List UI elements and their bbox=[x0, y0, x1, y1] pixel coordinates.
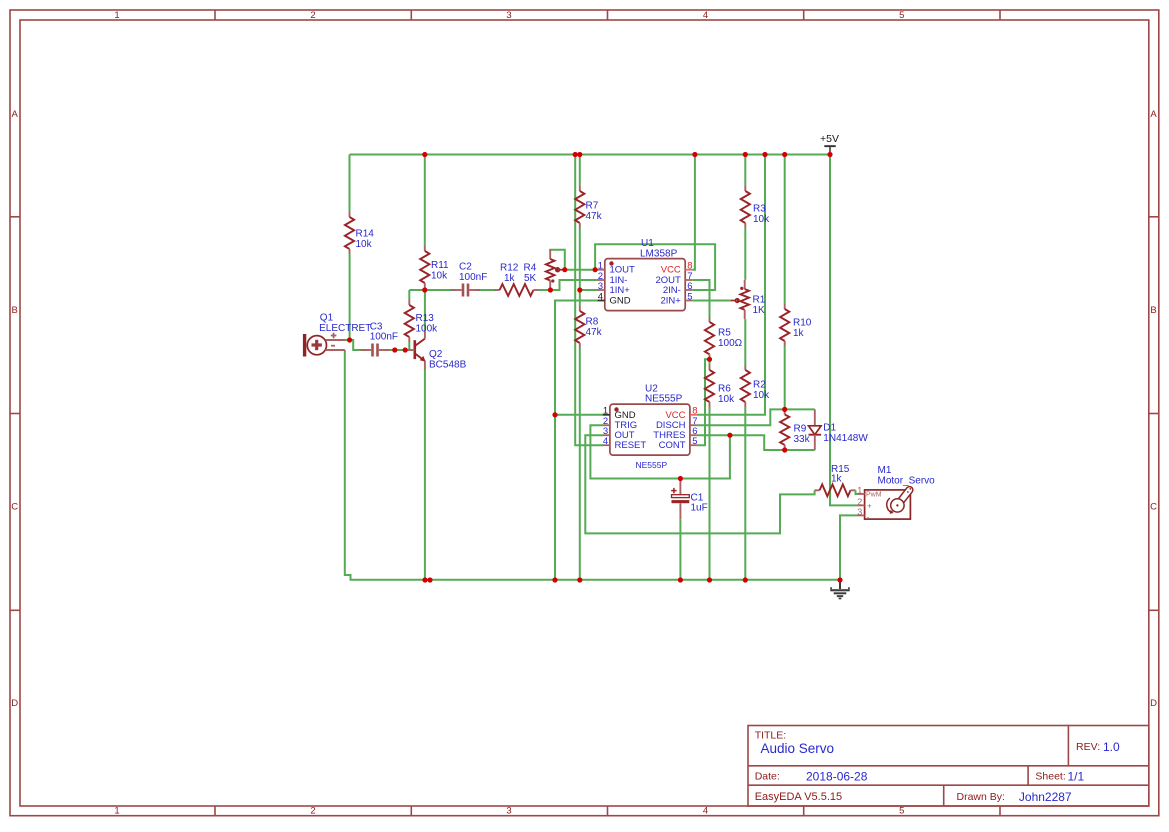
svg-text:4: 4 bbox=[603, 436, 608, 447]
svg-text:8: 8 bbox=[692, 406, 697, 417]
svg-text:47k: 47k bbox=[586, 211, 603, 222]
svg-text:Drawn By:: Drawn By: bbox=[957, 791, 1005, 803]
svg-text:-: - bbox=[867, 513, 870, 522]
svg-text:2: 2 bbox=[310, 10, 315, 21]
svg-text:GND: GND bbox=[610, 296, 631, 307]
svg-text:3: 3 bbox=[506, 806, 511, 817]
svg-text:1k: 1k bbox=[504, 273, 516, 284]
svg-text:PwM: PwM bbox=[866, 492, 882, 499]
svg-text:B: B bbox=[12, 305, 18, 316]
svg-text:EasyEDA V5.5.15: EasyEDA V5.5.15 bbox=[755, 791, 842, 803]
svg-text:4: 4 bbox=[703, 806, 708, 817]
svg-text:10k: 10k bbox=[356, 239, 373, 250]
svg-text:5: 5 bbox=[687, 291, 692, 302]
svg-text:D: D bbox=[11, 698, 18, 709]
svg-text:NE555P: NE555P bbox=[645, 394, 683, 405]
svg-text:10k: 10k bbox=[753, 214, 770, 225]
svg-text:4: 4 bbox=[598, 291, 603, 302]
svg-text:100nF: 100nF bbox=[370, 332, 398, 343]
svg-text:LM358P: LM358P bbox=[640, 248, 678, 259]
svg-text:1K: 1K bbox=[753, 305, 766, 316]
svg-text:Q1: Q1 bbox=[320, 313, 334, 324]
svg-text:D: D bbox=[1150, 698, 1157, 709]
svg-text:1: 1 bbox=[603, 406, 608, 417]
svg-text:Sheet:: Sheet: bbox=[1035, 770, 1065, 782]
svg-text:RESET: RESET bbox=[615, 440, 647, 451]
svg-text:5K: 5K bbox=[524, 273, 537, 284]
svg-text:2: 2 bbox=[857, 497, 862, 507]
svg-text:C: C bbox=[11, 502, 18, 513]
svg-text:33k: 33k bbox=[794, 434, 811, 445]
svg-text:1/1: 1/1 bbox=[1068, 769, 1085, 783]
svg-text:100Ω: 100Ω bbox=[718, 338, 743, 349]
svg-text:1k: 1k bbox=[793, 328, 805, 339]
svg-text:47k: 47k bbox=[586, 327, 603, 338]
svg-text:100nF: 100nF bbox=[459, 272, 487, 283]
svg-text:1N4148W: 1N4148W bbox=[823, 433, 868, 444]
svg-text:NE555P: NE555P bbox=[636, 460, 668, 470]
svg-text:3: 3 bbox=[857, 507, 862, 517]
svg-text:5: 5 bbox=[692, 436, 697, 447]
svg-text:3: 3 bbox=[598, 281, 603, 292]
svg-text:2018-06-28: 2018-06-28 bbox=[806, 769, 868, 783]
svg-text:1: 1 bbox=[114, 806, 119, 817]
svg-text:6: 6 bbox=[687, 281, 692, 292]
svg-text:1uF: 1uF bbox=[691, 503, 708, 514]
svg-text:Audio Servo: Audio Servo bbox=[761, 741, 835, 756]
svg-text:BC548B: BC548B bbox=[429, 359, 467, 370]
svg-text:M1: M1 bbox=[878, 465, 892, 476]
svg-text:Date:: Date: bbox=[755, 770, 780, 782]
svg-text:2IN+: 2IN+ bbox=[660, 296, 681, 307]
svg-text:B: B bbox=[1150, 305, 1156, 316]
svg-text:3: 3 bbox=[506, 10, 511, 21]
svg-text:+5V: +5V bbox=[820, 133, 839, 145]
svg-text:1: 1 bbox=[857, 486, 862, 496]
svg-text:1IN+: 1IN+ bbox=[610, 285, 631, 296]
svg-text:10k: 10k bbox=[718, 394, 735, 405]
svg-text:10k: 10k bbox=[431, 270, 448, 281]
svg-text:C: C bbox=[1150, 502, 1157, 513]
svg-text:1.0: 1.0 bbox=[1103, 740, 1120, 754]
svg-text:10k: 10k bbox=[753, 390, 770, 401]
svg-text:D1: D1 bbox=[823, 423, 836, 434]
svg-text:100k: 100k bbox=[416, 323, 439, 334]
svg-text:CONT: CONT bbox=[659, 440, 686, 451]
svg-text:REV:: REV: bbox=[1076, 741, 1100, 753]
svg-text:+: + bbox=[867, 502, 872, 511]
svg-text:1k: 1k bbox=[831, 474, 843, 485]
svg-text:GND: GND bbox=[615, 410, 636, 421]
svg-text:John2287: John2287 bbox=[1019, 790, 1072, 804]
svg-text:A: A bbox=[12, 109, 19, 120]
svg-text:A: A bbox=[1150, 109, 1157, 120]
svg-text:5: 5 bbox=[899, 10, 904, 21]
svg-text:2: 2 bbox=[310, 806, 315, 817]
svg-text:2IN-: 2IN- bbox=[663, 285, 681, 296]
svg-text:ELECTRET: ELECTRET bbox=[319, 323, 371, 334]
svg-text:Motor_Servo: Motor_Servo bbox=[878, 476, 936, 487]
svg-text:1: 1 bbox=[114, 10, 119, 21]
svg-text:4: 4 bbox=[703, 10, 708, 21]
svg-text:5: 5 bbox=[899, 806, 904, 817]
svg-text:VCC: VCC bbox=[665, 410, 685, 421]
